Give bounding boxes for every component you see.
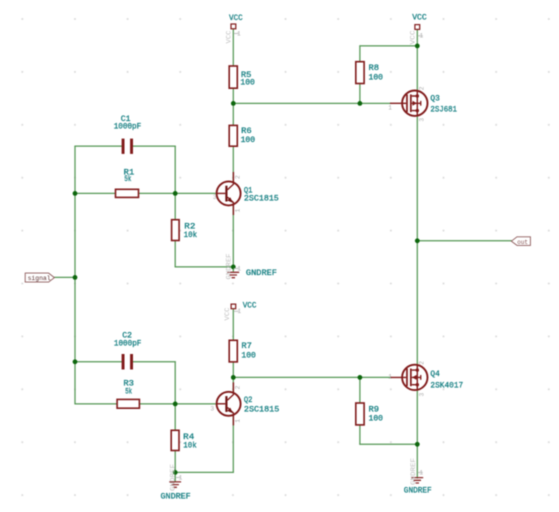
wire ground stub G2 — [174, 472, 176, 481]
resistor R5 — [229, 66, 255, 88]
svg-text:1: 1 — [237, 308, 241, 315]
transistor Q4 2SK4017 N-MOSFET — [388, 361, 463, 397]
wire node down to R4 top — [174, 404, 176, 430]
wire Q1 emitter down to ground node — [232, 205, 234, 267]
svg-text:5k: 5k — [124, 174, 131, 184]
wire Q2 emitter down — [232, 416, 234, 473]
wire node down to R2 top — [174, 193, 176, 219]
wire VCC2 stub — [416, 30, 418, 46]
junction Q2 collector node — [231, 375, 236, 380]
wire gate node down to R9 top — [359, 377, 361, 403]
svg-text:1: 1 — [237, 30, 241, 37]
power VCC #2 (top right column) — [409, 13, 426, 45]
svg-text:GNDREF: GNDREF — [246, 268, 277, 278]
svg-text:100: 100 — [240, 78, 255, 88]
svg-text:GNDREF: GNDREF — [410, 458, 417, 485]
wire Q4 source down to ground node — [416, 390, 418, 444]
wire VCC3 stub to R7 — [232, 309, 234, 341]
svg-text:100: 100 — [241, 135, 256, 145]
svg-text:2SC1815: 2SC1815 — [244, 193, 279, 203]
wire R9 bottom over to Q4 source column — [360, 443, 417, 445]
transistor Q3 2SJ681 P-MOSFET — [388, 86, 457, 121]
capacitor C1 — [114, 114, 142, 154]
wire out node to out flag — [417, 240, 511, 242]
svg-text:VCC: VCC — [229, 13, 243, 23]
svg-text:1: 1 — [419, 470, 423, 477]
svg-text:2SJ681: 2SJ681 — [430, 105, 457, 115]
wire C2 right to right vertical — [133, 361, 175, 363]
junction bus at C2 row — [73, 359, 78, 364]
capacitor C2 — [114, 331, 141, 370]
svg-text:2: 2 — [235, 385, 242, 389]
wire R7 bottom to Q2 collector — [232, 362, 234, 392]
wire signal flag to bus — [54, 276, 75, 278]
svg-text:100: 100 — [241, 350, 256, 360]
wire ground stub G3 — [416, 444, 418, 478]
svg-text:3: 3 — [213, 194, 217, 201]
wire Q3 source down to out node — [416, 116, 418, 241]
svg-text:10k: 10k — [183, 441, 197, 451]
wire out node down to Q4 drain — [416, 241, 418, 365]
junction out node — [415, 238, 420, 243]
wire R2 bottom over to ground node — [175, 266, 233, 268]
svg-text:VCC: VCC — [226, 30, 233, 43]
svg-text:3: 3 — [419, 393, 426, 397]
svg-text:10k: 10k — [184, 230, 198, 240]
junction Q4 gate node — [358, 375, 363, 380]
svg-text:1: 1 — [235, 208, 242, 212]
wire bus to R1 left — [75, 192, 116, 194]
resistor R7 — [229, 340, 256, 362]
svg-text:1: 1 — [420, 33, 424, 40]
ground GNDREF G1 (below Q1 emitter node) — [226, 253, 277, 279]
svg-text:2: 2 — [419, 86, 426, 90]
svg-text:GNDREF: GNDREF — [404, 486, 432, 496]
svg-text:signal: signal — [28, 275, 51, 283]
svg-text:2: 2 — [419, 361, 426, 365]
net label out — [511, 237, 530, 247]
wire right vertical C1 row to R1 row — [174, 146, 176, 193]
resistor R3 — [117, 379, 139, 409]
resistor R9 — [356, 403, 383, 425]
svg-text:out: out — [517, 239, 528, 247]
resistor R2 — [172, 220, 198, 241]
wire ground stub G1 — [232, 267, 234, 271]
junction node A at R8 bottom — [358, 101, 363, 106]
svg-text:1000pF: 1000pF — [114, 121, 142, 131]
resistor R8 — [356, 62, 383, 84]
svg-text:Q4: Q4 — [430, 369, 439, 379]
wire R3 right to node — [139, 403, 175, 405]
svg-text:1: 1 — [388, 104, 392, 111]
junction VCC2 node — [415, 44, 420, 49]
svg-text:Q3: Q3 — [430, 93, 439, 103]
transistor Q2 2SC1815 NPN — [210, 382, 279, 425]
wire R8 top over to VCC2 column — [360, 45, 417, 47]
wire R2 bottom down — [174, 241, 176, 267]
svg-text:GNDREF: GNDREF — [226, 253, 233, 279]
junction R1 right node — [173, 191, 178, 196]
ground GNDREF G2 (below R4) — [161, 464, 191, 502]
svg-text:5k: 5k — [125, 386, 132, 396]
junction ground node G1 — [231, 265, 236, 270]
svg-text:2SK4017: 2SK4017 — [430, 380, 463, 390]
wire left input bus vertical — [74, 146, 76, 404]
wire R9 bottom down — [359, 425, 361, 444]
svg-text:100: 100 — [369, 414, 384, 424]
svg-text:VCC: VCC — [243, 300, 257, 310]
junction bus at signal — [73, 275, 78, 280]
wire C1 right to right vertical — [133, 145, 175, 147]
wire R1 right to node — [139, 192, 176, 194]
wire R8 bottom to node A — [359, 84, 361, 104]
wire R8 top up — [359, 46, 361, 62]
wire R5 bottom to R6 top through node — [232, 88, 234, 125]
wire node to Q2 base — [175, 403, 217, 405]
wire R4 bottom to ground node — [174, 451, 176, 473]
junction ground node G3 — [415, 442, 420, 447]
resistor R1 — [116, 167, 139, 197]
wire bus to C2 left — [75, 361, 122, 363]
svg-text:1: 1 — [237, 266, 241, 273]
wire gate node to Q4 gate pin — [360, 376, 391, 378]
wire node A to Q3 gate pin — [360, 102, 391, 104]
svg-text:2: 2 — [235, 175, 242, 179]
junction ground node G2 — [173, 470, 178, 475]
svg-text:GNDREF: GNDREF — [170, 464, 177, 491]
svg-text:1: 1 — [235, 419, 242, 423]
net label signal — [25, 273, 54, 283]
svg-text:100: 100 — [369, 72, 384, 82]
svg-text:VCC: VCC — [224, 307, 231, 320]
power VCC #3 (above R7) — [224, 300, 256, 320]
junction R3 right node — [173, 402, 178, 407]
resistor R4 — [171, 430, 197, 450]
wire Q2 emitter over to G2 node — [175, 471, 233, 473]
wire VCC2 node down to Q3 drain — [416, 46, 418, 91]
transistor Q1 2SC1815 NPN — [213, 172, 279, 215]
wire Q2 collector node to Q4 gate row — [233, 376, 360, 378]
resistor R6 — [229, 125, 255, 146]
svg-text:GNDREF: GNDREF — [161, 491, 191, 501]
wire bus to C1 left — [75, 145, 122, 147]
wire node A horizontal R5/R8 to Q3 gate row — [233, 102, 360, 104]
svg-text:2SC1815: 2SC1815 — [244, 405, 279, 415]
svg-text:1: 1 — [179, 475, 183, 482]
junction node A at R5/R6 — [231, 101, 236, 106]
wire VCC1 stub to R5 — [232, 29, 234, 66]
ground GNDREF G3 (below Q4 source node) — [404, 458, 432, 496]
svg-text:3: 3 — [210, 406, 214, 413]
svg-text:1: 1 — [388, 373, 392, 380]
svg-text:3: 3 — [419, 118, 426, 122]
power VCC #1 (top left column) — [226, 13, 243, 44]
svg-text:VCC: VCC — [412, 13, 427, 23]
svg-text:1000pF: 1000pF — [114, 338, 141, 348]
wire R6 bottom to Q1 collector — [232, 146, 234, 182]
svg-text:VCC: VCC — [409, 30, 416, 44]
wire node to Q1 base — [175, 192, 217, 194]
junction bus at R1 row — [73, 191, 78, 196]
wire right vertical C2 row to R3 row — [174, 362, 176, 404]
wire bus to R3 left — [75, 403, 117, 405]
